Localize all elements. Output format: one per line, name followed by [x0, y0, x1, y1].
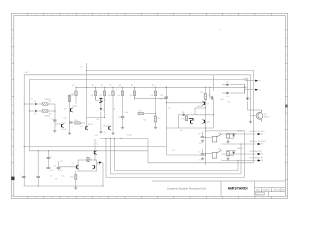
svg-text:R17: R17	[152, 85, 155, 87]
transistor Q6	[256, 112, 263, 119]
svg-text:C1: C1	[51, 119, 53, 121]
diode D10	[233, 152, 235, 154]
svg-text:1N4148: 1N4148	[45, 115, 51, 117]
connector P5	[222, 153, 256, 155]
svg-text:Q2: Q2	[64, 109, 66, 111]
svg-text:15: 15	[35, 197, 37, 199]
wire mid bottom	[100, 138, 148, 140]
ground	[68, 132, 71, 135]
wire feed x95	[94, 139, 96, 160]
svg-text:D3: D3	[104, 100, 106, 102]
capacitor C7	[201, 154, 205, 155]
latch box wire	[78, 160, 97, 171]
wire q6 links	[248, 109, 262, 111]
svg-text:+: +	[20, 173, 21, 175]
relay RL2 contacts	[212, 152, 217, 158]
transistor Q10	[94, 165, 96, 168]
svg-text:8: 8	[149, 14, 150, 16]
svg-text:R7: R7	[109, 85, 111, 87]
wire relay loop B	[111, 139, 242, 174]
wire x178 drop	[177, 115, 179, 128]
resistor R8	[122, 87, 124, 91]
diode D2	[29, 110, 34, 112]
svg-text:C13: C13	[160, 95, 163, 97]
diode D5	[222, 84, 226, 86]
svg-text:R8: R8	[119, 85, 121, 87]
svg-text:13: 13	[67, 197, 69, 199]
connector P3	[222, 133, 256, 135]
svg-text:10k: 10k	[100, 95, 103, 97]
transistor Q8 mark	[94, 151, 96, 155]
wire mid join	[100, 112, 102, 131]
resistor R13	[204, 87, 206, 93]
svg-text:C10: C10	[62, 176, 65, 178]
svg-text:D5: D5	[227, 82, 229, 84]
wire diode join	[244, 85, 246, 93]
wire x213 drop	[213, 75, 215, 91]
resistor R4	[75, 87, 77, 91]
svg-text:Q10: Q10	[97, 164, 100, 166]
wire mid mesh	[166, 127, 213, 129]
svg-text:14: 14	[51, 14, 53, 16]
svg-text:R10: R10	[75, 120, 78, 122]
connector P4	[222, 143, 256, 145]
svg-text:R4: R4	[72, 85, 74, 87]
svg-text:4u7: 4u7	[199, 143, 202, 145]
svg-text:13: 13	[67, 14, 69, 16]
svg-text:1N4004: 1N4004	[237, 148, 243, 150]
svg-text:D8: D8	[182, 112, 184, 114]
svg-text:2k2: 2k2	[172, 150, 175, 152]
resistor R3	[68, 96, 71, 102]
svg-text:10k: 10k	[130, 95, 133, 97]
wire relay loop A	[106, 131, 245, 178]
diode D6	[222, 92, 226, 94]
resistor R16	[75, 171, 77, 175]
svg-text:6: 6	[181, 14, 182, 16]
svg-text:7: 7	[165, 14, 166, 16]
transistor Q9	[75, 165, 77, 168]
svg-text:4: 4	[214, 14, 215, 16]
svg-text:DWG NO.: DWG NO.	[274, 190, 282, 192]
svg-text:C5 (n3): C5 (n3)	[127, 135, 133, 137]
ground	[226, 157, 229, 160]
svg-text:P4: P4	[261, 144, 263, 146]
capacitor C13	[165, 97, 169, 98]
svg-text:10k: 10k	[151, 95, 154, 97]
svg-text:1N4148: 1N4148	[45, 99, 51, 101]
wire lower feed 1	[24, 145, 166, 147]
wire vertical x166	[165, 87, 167, 155]
wire bottom link	[24, 185, 103, 187]
wire vertical x69	[69, 94, 71, 132]
svg-text:4k7: 4k7	[180, 130, 183, 132]
svg-text:10u: 10u	[60, 170, 63, 172]
svg-text:R13: R13	[200, 92, 203, 94]
svg-text:D4: D4	[103, 109, 105, 111]
svg-text:1: 1	[263, 197, 264, 199]
svg-text:BC548: BC548	[198, 106, 203, 108]
svg-text:R14: R14	[182, 119, 185, 121]
svg-text:C6: C6	[198, 134, 200, 136]
svg-text:4: 4	[214, 197, 215, 199]
svg-text:Q11: Q11	[207, 122, 210, 124]
svg-text:Q1: Q1	[64, 123, 66, 125]
transistor Q5	[204, 102, 206, 105]
wire rail loop 2	[24, 75, 250, 186]
transistor Q2	[70, 108, 72, 111]
capacitor C12	[22, 176, 26, 177]
wire mid mesh 2	[166, 154, 205, 156]
svg-text:15: 15	[35, 14, 37, 16]
wire lower feed 2	[29, 150, 148, 152]
svg-text:0u47: 0u47	[221, 99, 225, 101]
svg-text:AMISTARDI: AMISTARDI	[228, 187, 248, 191]
svg-text:5: 5	[198, 14, 199, 16]
svg-text:D1: D1	[31, 99, 33, 101]
svg-text:BC549: BC549	[104, 126, 109, 128]
svg-text:10k: 10k	[108, 95, 111, 97]
svg-text:R5: R5	[92, 85, 94, 87]
svg-text:Q4: Q4	[104, 132, 106, 134]
svg-text:R11: R11	[139, 111, 142, 113]
capacitor C9	[47, 151, 49, 158]
svg-text:Q6: Q6	[264, 114, 266, 116]
svg-text:Q3: Q3	[80, 126, 82, 128]
resistor R15	[87, 157, 89, 162]
svg-text:D6: D6	[227, 96, 229, 98]
transistor Q4	[108, 126, 110, 129]
svg-text:10k: 10k	[118, 95, 121, 97]
svg-text:7: 7	[165, 197, 166, 199]
svg-text:RLB: RLB	[218, 149, 221, 151]
resistor R1	[42, 103, 48, 105]
node supply junction	[86, 70, 87, 71]
ground	[226, 140, 229, 143]
svg-text:J: J	[286, 187, 287, 189]
svg-text:2u2: 2u2	[55, 179, 58, 181]
wire mid horizontal	[86, 117, 104, 119]
ground	[74, 187, 77, 190]
capacitor C2	[69, 122, 73, 123]
wire ladder drops	[75, 100, 77, 104]
wire +ve supply stub	[86, 63, 88, 87]
svg-text:E5: E5	[61, 161, 63, 163]
svg-text:10u: 10u	[160, 99, 163, 101]
zener D7	[246, 98, 248, 100]
relay RL1 coil	[226, 134, 229, 138]
resistor R17	[155, 87, 157, 91]
capacitor C11	[37, 151, 39, 176]
node bus junctions	[75, 87, 76, 88]
resistor R9	[134, 87, 136, 91]
wire resistor bus	[76, 87, 245, 93]
ground	[201, 140, 204, 143]
capacitor C1	[53, 120, 57, 121]
svg-text:10k: 10k	[71, 95, 74, 97]
svg-text:C3: C3	[118, 117, 120, 119]
resistor R14	[185, 116, 187, 121]
capacitor C6	[201, 136, 205, 137]
svg-text:P2: P2	[259, 89, 261, 91]
svg-text:14: 14	[97, 144, 99, 146]
svg-text:Q5: Q5	[207, 104, 209, 106]
svg-text:D7: D7	[249, 99, 251, 101]
capacitor C8	[57, 167, 61, 168]
svg-text:10k: 10k	[91, 95, 94, 97]
ground	[121, 126, 124, 129]
node	[155, 113, 156, 114]
diode D1	[30, 103, 35, 105]
svg-text:R9: R9	[131, 85, 133, 87]
svg-text:ss: ss	[219, 29, 221, 31]
transistor Q11	[204, 120, 206, 123]
svg-text:BC549: BC549	[88, 124, 93, 126]
wire left branch join	[54, 104, 56, 129]
wire latch out	[97, 162, 99, 164]
resistor R11	[138, 112, 144, 114]
wire rail loop 3	[29, 79, 247, 150]
resistor R2	[42, 110, 48, 112]
svg-text:1: 1	[263, 14, 264, 16]
zener D4	[100, 103, 102, 108]
svg-text:R2: R2	[49, 114, 51, 116]
svg-text:11: 11	[100, 14, 102, 16]
svg-text:P5: P5	[261, 154, 263, 156]
svg-text:R1: R1	[49, 101, 51, 103]
svg-text:12: 12	[83, 14, 85, 16]
wire rail loop 1	[87, 70, 254, 162]
transistor Q1	[61, 124, 63, 127]
svg-text:14: 14	[51, 197, 53, 199]
svg-text:BD140: BD140	[264, 117, 269, 119]
title block frame	[152, 181, 285, 196]
transistor Q3	[85, 126, 87, 129]
ground	[111, 132, 114, 135]
diode D9	[233, 135, 235, 137]
svg-text:1n: 1n	[50, 157, 52, 159]
svg-text:R16: R16	[70, 176, 73, 178]
svg-text:100n: 100n	[125, 112, 129, 114]
svg-text:Q9: Q9	[72, 163, 74, 165]
svg-text:3: 3	[230, 197, 231, 199]
wire left branch 1	[24, 103, 29, 105]
svg-text:C7: C7	[198, 151, 200, 153]
svg-text:u73: u73	[95, 135, 98, 137]
resistor R12	[155, 100, 157, 116]
connector P6	[222, 160, 256, 162]
svg-text:Complete Speaker Protection Un: Complete Speaker Protection Unit	[167, 188, 206, 191]
svg-text:R6: R6	[101, 85, 103, 87]
connector arrow MUTE	[245, 80, 254, 82]
svg-text:SIZE: SIZE	[256, 190, 260, 192]
resistor R10	[75, 122, 80, 124]
svg-text:9: 9	[133, 14, 134, 16]
ground	[99, 131, 102, 134]
svg-text:12: 12	[90, 158, 92, 160]
svg-text:P3: P3	[261, 134, 263, 136]
svg-text:BC559: BC559	[73, 106, 78, 108]
svg-text:56k: 56k	[144, 120, 147, 122]
svg-text:100n: 100n	[64, 118, 68, 120]
svg-text:FSCM NO.: FSCM NO.	[263, 190, 271, 192]
ground	[53, 130, 56, 133]
svg-text:MUTE: MUTE	[244, 78, 248, 80]
diode D8	[178, 114, 182, 116]
svg-text:D1: D1	[34, 101, 36, 103]
wire relay loop C	[115, 139, 239, 171]
svg-text:BC549: BC549	[62, 129, 67, 131]
svg-text:D2: D2	[34, 114, 36, 116]
ground	[154, 126, 157, 129]
svg-text:2: 2	[246, 197, 247, 199]
svg-text:5: 5	[198, 197, 199, 199]
wire r9 link	[134, 96, 136, 99]
wire y103	[166, 102, 205, 104]
wire q3 base	[86, 118, 88, 127]
capacitor C5	[211, 96, 212, 100]
svg-text:25V: 25V	[228, 102, 231, 104]
ground	[249, 121, 252, 124]
svg-text:8: 8	[149, 197, 150, 199]
resistor R5	[95, 87, 97, 91]
svg-text:R12: R12	[157, 118, 160, 120]
resistor R7	[112, 87, 114, 91]
wire left column top	[58, 161, 60, 167]
svg-text:10: 10	[116, 14, 118, 16]
svg-text:10: 10	[116, 197, 118, 199]
svg-text:4u7: 4u7	[199, 160, 202, 162]
svg-text:1N4004: 1N4004	[237, 131, 243, 133]
svg-text:11: 11	[100, 197, 102, 199]
svg-text:3: 3	[230, 14, 231, 16]
connector arrow DC IN	[245, 89, 254, 91]
svg-text:2u2: 2u2	[50, 170, 53, 172]
resistor R6	[104, 87, 106, 91]
svg-text:2: 2	[246, 14, 247, 16]
svg-text:C8: C8	[54, 166, 56, 168]
svg-text:22k: 22k	[113, 109, 116, 111]
relay RL2 coil	[226, 152, 229, 156]
relay RL1 contacts	[212, 136, 217, 142]
svg-text:+: +	[35, 173, 36, 175]
svg-text:12: 12	[83, 197, 85, 199]
svg-text:J: J	[12, 187, 13, 189]
svg-text:9: 9	[133, 197, 134, 199]
svg-text:P6: P6	[261, 160, 263, 162]
ground	[201, 157, 204, 160]
capacitor C3	[121, 116, 125, 117]
svg-text:47k: 47k	[97, 119, 100, 121]
diode D3	[95, 96, 97, 101]
svg-text:6: 6	[181, 197, 182, 199]
svg-text:P1: P1	[259, 80, 261, 82]
transistor Q7	[190, 120, 192, 123]
